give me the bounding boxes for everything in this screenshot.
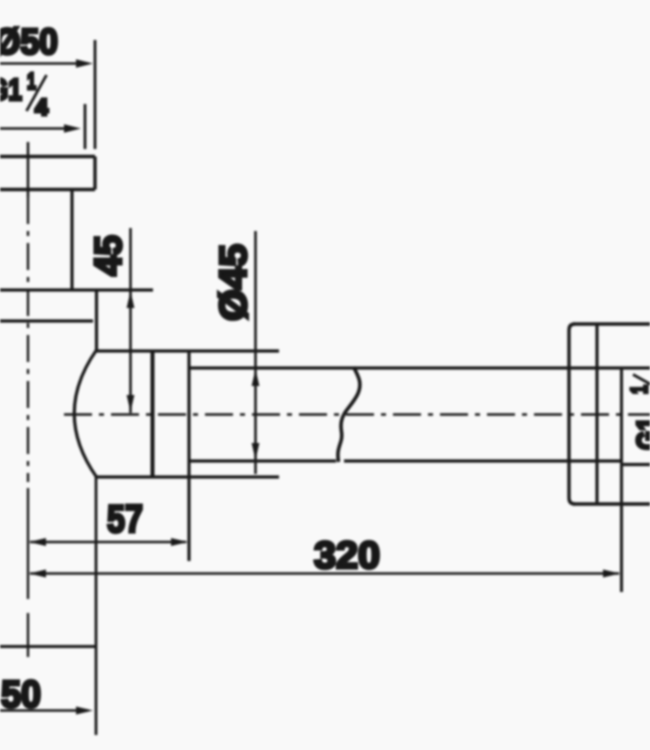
wall flange inner face bbox=[595, 324, 598, 504]
trap top line bbox=[0, 288, 153, 291]
break mark squiggle bbox=[338, 367, 360, 462]
svg-text:57: 57 bbox=[107, 498, 143, 541]
svg-text:G1: G1 bbox=[0, 72, 22, 107]
bottle body curve bbox=[74, 350, 96, 477]
trap body right edge bbox=[95, 290, 98, 351]
svg-text:1: 1 bbox=[626, 385, 650, 394]
compression nut left edge bbox=[151, 350, 155, 477]
dimension line ø45 bbox=[254, 231, 257, 474]
dimension line 50 bbox=[0, 709, 88, 712]
body bottom line bbox=[96, 475, 279, 478]
trap shoulder line bbox=[0, 319, 93, 322]
pipe end line and 320 extension bbox=[620, 368, 623, 592]
dimension line G1 1/4 bbox=[0, 127, 75, 130]
horizontal pipe top bbox=[189, 366, 650, 369]
arrow ø45 up bbox=[252, 369, 260, 386]
dimension line Ø50 bbox=[0, 62, 88, 65]
arrow Ø50 bbox=[76, 59, 93, 67]
svg-text:4: 4 bbox=[35, 94, 48, 120]
dimension line 57 bbox=[30, 541, 186, 544]
arrow 57 left bbox=[29, 538, 46, 546]
wall tube outer lower line bbox=[622, 463, 650, 466]
bottom reference line bbox=[0, 645, 96, 648]
body top line bbox=[96, 349, 279, 352]
extension line 50 (from bottle corner) bbox=[95, 477, 98, 735]
arrow 45 down bbox=[127, 395, 135, 412]
arrow ø45 down bbox=[252, 443, 260, 460]
wall flange top line bbox=[573, 322, 650, 325]
wall flange bottom line bbox=[573, 502, 650, 505]
svg-text:Ø45: Ø45 bbox=[213, 244, 255, 321]
arrow 320 left bbox=[29, 570, 46, 578]
arrow 45 up bbox=[127, 291, 135, 308]
text dimension G1 1/4 bbox=[0, 68, 48, 120]
svg-text:45: 45 bbox=[88, 235, 130, 276]
svg-text:G1: G1 bbox=[630, 417, 650, 450]
compression nut right edge and 57 extension bbox=[187, 350, 190, 561]
inlet tube right edge bbox=[70, 189, 73, 290]
label G1 1/4 at wall (rotated, clipped) bbox=[626, 373, 650, 450]
svg-text:320: 320 bbox=[314, 535, 380, 577]
pipe centerline bbox=[64, 413, 650, 415]
horizontal pipe bottom left of break bbox=[189, 459, 336, 462]
inlet flange bbox=[0, 157, 95, 190]
dimension line 45 bbox=[129, 228, 132, 413]
arrow 50 right bbox=[76, 707, 93, 715]
arrow 320 right bbox=[603, 570, 620, 578]
wall flange left edge bbox=[569, 324, 575, 504]
svg-text:1: 1 bbox=[27, 68, 36, 94]
svg-text:Ø50: Ø50 bbox=[0, 21, 58, 62]
extension line G1 1/4 bbox=[84, 104, 87, 149]
dimension line 320 bbox=[30, 572, 619, 575]
vertical centerline bbox=[27, 197, 29, 482]
extension line Ø50 bbox=[94, 40, 97, 149]
centerline tick above flange bbox=[27, 142, 30, 197]
horizontal pipe bottom right of break bbox=[344, 459, 622, 462]
arrow G1 1/4 bbox=[64, 124, 81, 132]
arrow 57 right bbox=[171, 538, 188, 546]
